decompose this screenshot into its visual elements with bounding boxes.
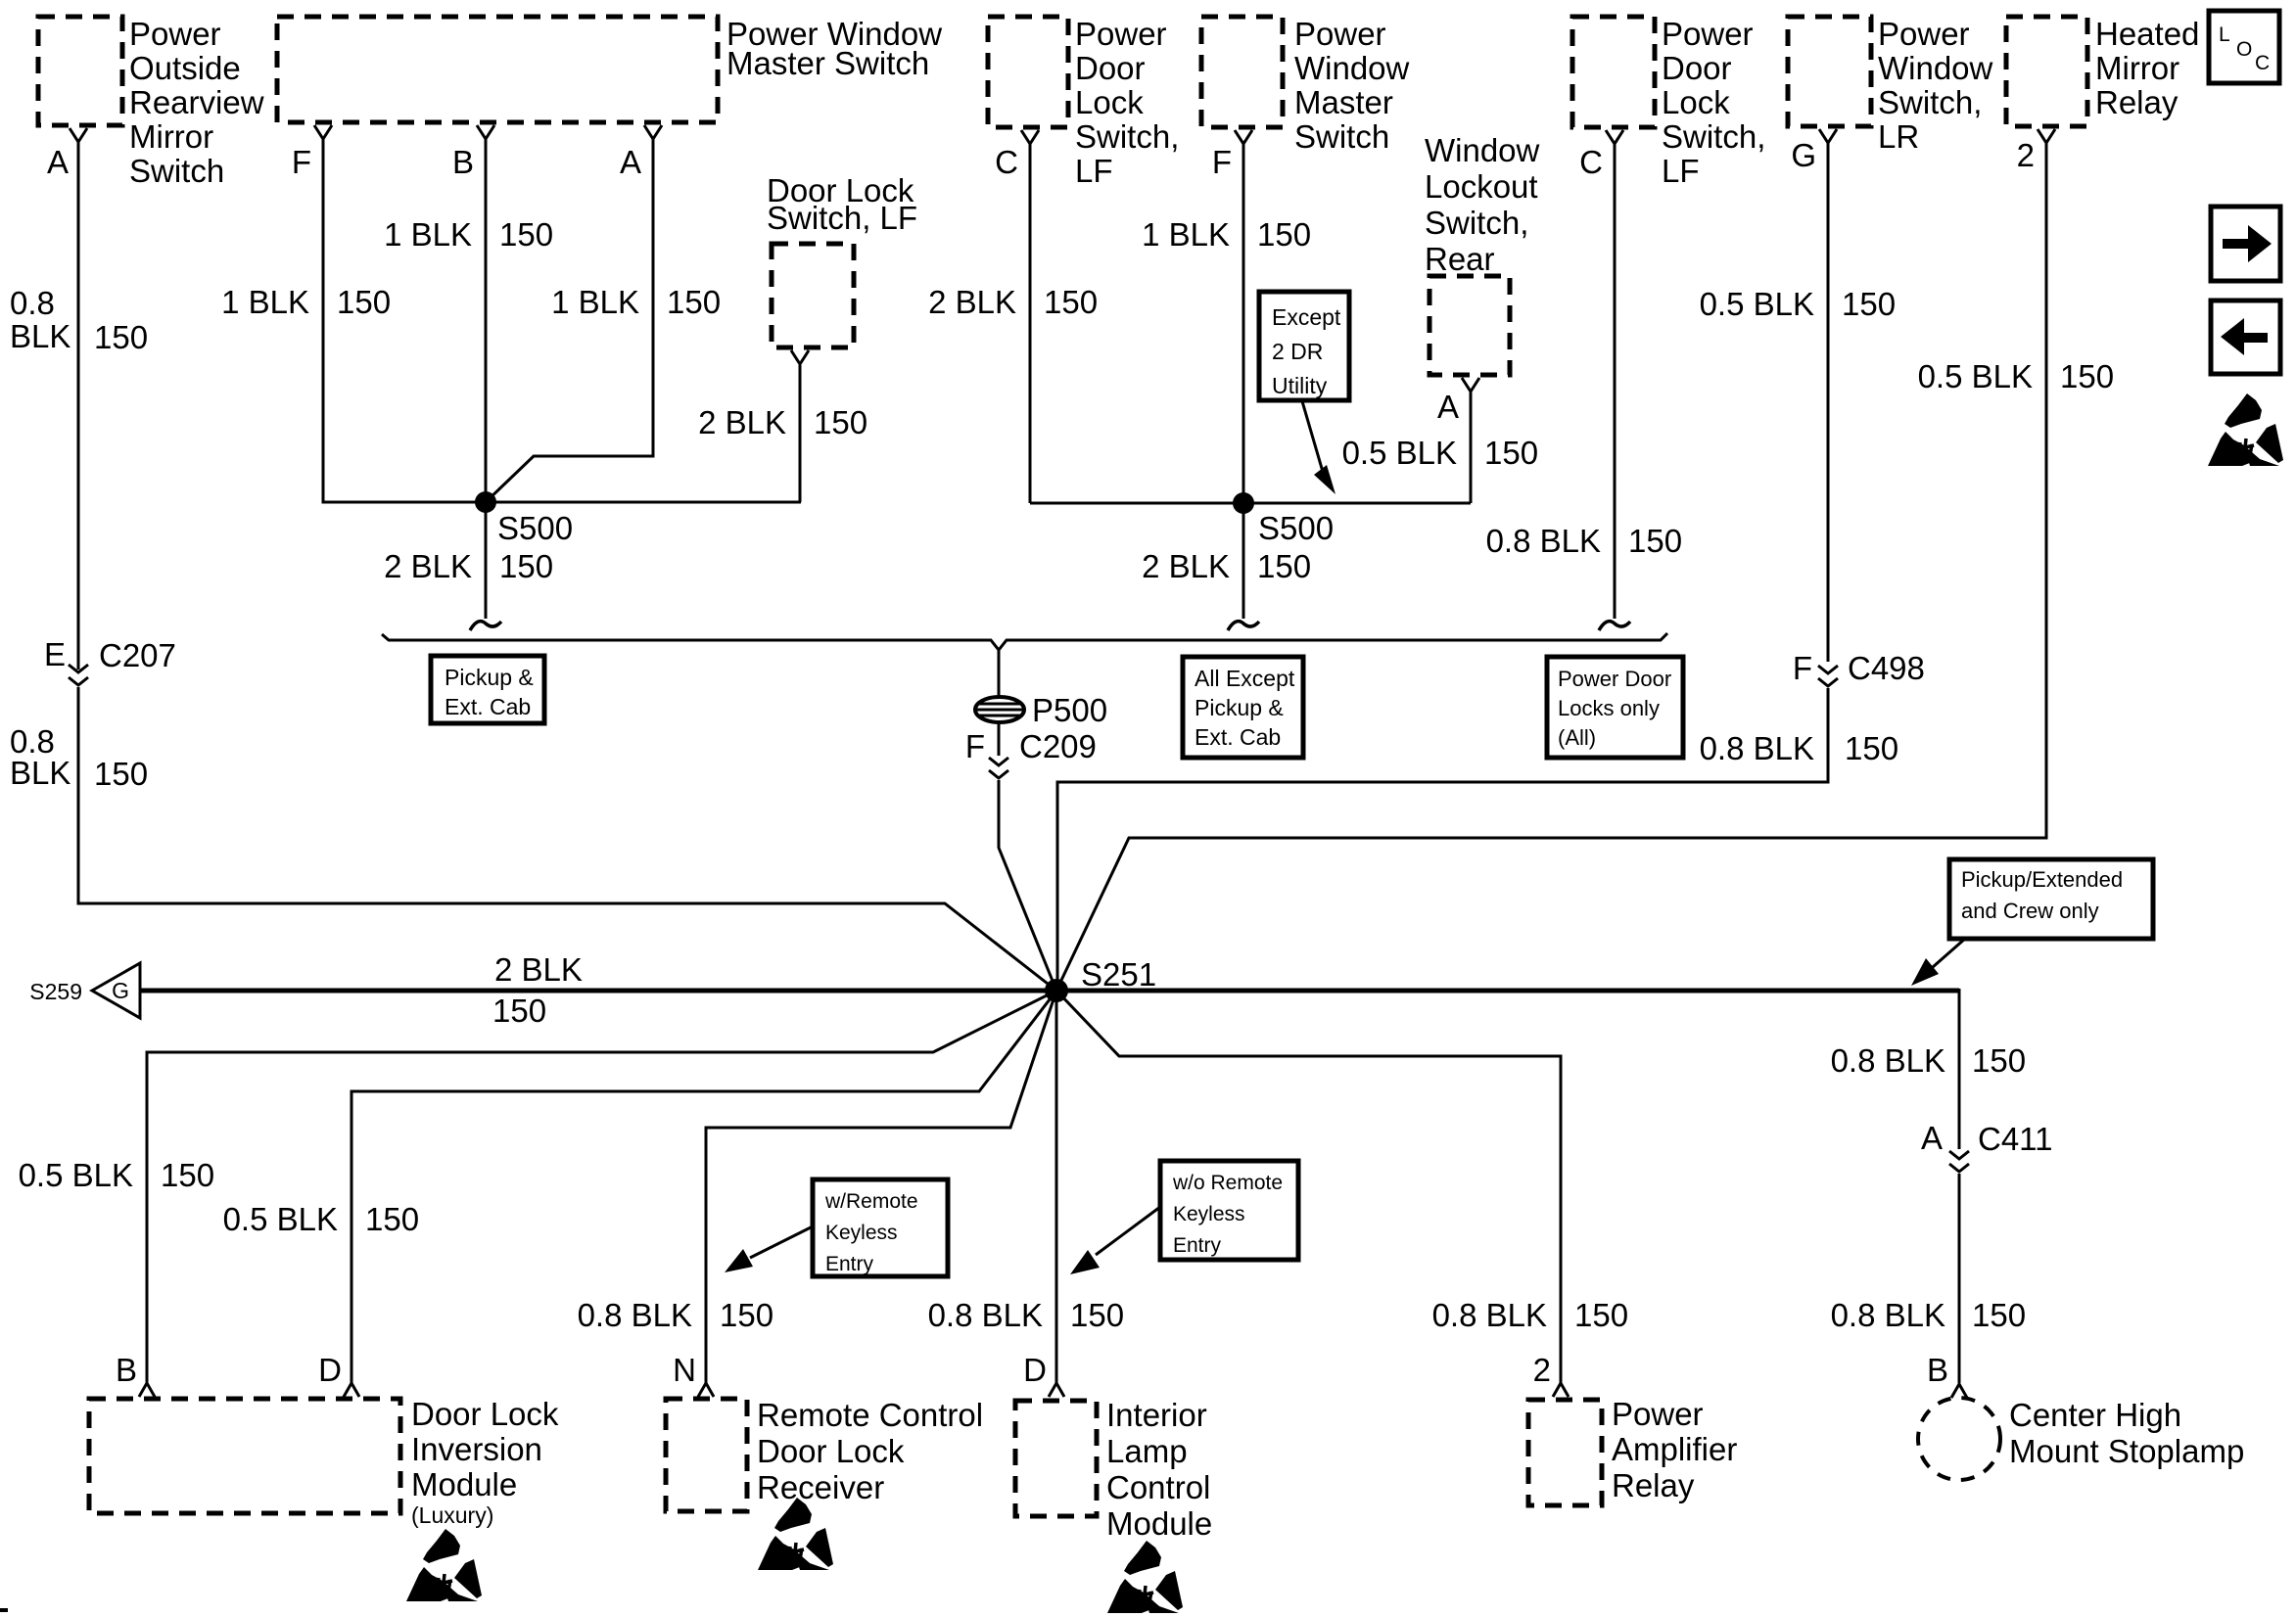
svg-text:150: 150: [1842, 286, 1896, 322]
grounds trunk 2 BLK right: [1056, 989, 1959, 1149]
arrow from Except 2 DR Utility callout: [1302, 401, 1335, 494]
svg-text:Ext. Cab: Ext. Cab: [445, 694, 531, 719]
label 2 BLK 150 below S500 right: [1142, 548, 1311, 584]
svg-text:Master Switch: Master Switch: [726, 45, 929, 81]
wire C209 to S251: [999, 780, 1056, 991]
label 0.8 BLK 150 on wire A lower: [10, 723, 148, 792]
wire C498 to S251 trunk corner: [1057, 688, 1828, 991]
svg-text:LF: LF: [1075, 153, 1113, 189]
svg-text:Switch: Switch: [1294, 118, 1389, 155]
svg-text:Door: Door: [1075, 50, 1146, 86]
svg-text:Receiver: Receiver: [757, 1469, 884, 1505]
svg-text:Door Lock: Door Lock: [757, 1433, 905, 1469]
wire F2 to S500 right: [1242, 143, 1245, 503]
component Power Door Lock Switch LF: [988, 16, 1179, 189]
svg-text:Utility: Utility: [1272, 373, 1328, 398]
svg-text:1 BLK: 1 BLK: [1142, 216, 1230, 253]
wire below S500 left with bus squiggle: [470, 502, 501, 630]
component Power Window Master Switch: [277, 16, 942, 122]
svg-text:Switch,: Switch,: [1425, 205, 1528, 241]
pin C of power door lock switch LF 2: [1579, 130, 1623, 180]
svg-text:150: 150: [2060, 358, 2114, 394]
pin F of power window master switch: [292, 125, 332, 180]
svg-text:F: F: [1212, 144, 1232, 180]
svg-text:Lockout: Lockout: [1425, 168, 1538, 205]
svg-text:150: 150: [1628, 523, 1682, 559]
svg-text:Window: Window: [1294, 50, 1410, 86]
svg-text:L: L: [2219, 23, 2230, 46]
svg-text:O: O: [2236, 38, 2252, 61]
harness bus line: [382, 633, 1667, 650]
label 2 BLK 150 door lock switch wire: [698, 404, 867, 440]
svg-text:1 BLK: 1 BLK: [384, 216, 472, 253]
svg-text:A: A: [1437, 389, 1459, 425]
component Door Lock Switch LF: [767, 172, 917, 347]
pin G of power window switch LR: [1791, 129, 1837, 173]
svg-text:C209: C209: [1019, 728, 1097, 764]
svg-text:150: 150: [94, 756, 148, 792]
component Power Window Switch LR: [1788, 16, 1993, 155]
svg-text:Locks only: Locks only: [1558, 696, 1660, 720]
svg-text:0.8 BLK: 0.8 BLK: [578, 1297, 692, 1333]
component Window Lockout Switch Rear: [1425, 132, 1540, 375]
svg-text:C411: C411: [1978, 1121, 2052, 1157]
svg-text:Switch, LF: Switch, LF: [767, 200, 917, 236]
svg-text:C: C: [995, 144, 1018, 180]
connector C411: [1921, 1120, 2052, 1172]
connector C207: [44, 636, 176, 685]
wire window lockout switch down to bus: [1470, 392, 1473, 503]
svg-text:S251: S251: [1081, 956, 1156, 993]
pin of door lock switch LF: [791, 350, 809, 364]
svg-text:LR: LR: [1878, 118, 1919, 155]
off-page connector S259 G: [29, 963, 140, 1018]
svg-text:0.5 BLK: 0.5 BLK: [1700, 286, 1814, 322]
svg-text:0.5 BLK: 0.5 BLK: [1918, 358, 2033, 394]
svg-text:Heated: Heated: [2095, 16, 2199, 52]
arrow from w o Remote callout to trunk wire: [1070, 1207, 1160, 1274]
component Heated Mirror Relay: [2006, 16, 2199, 126]
svg-text:150: 150: [1845, 730, 1898, 766]
svg-text:Module: Module: [411, 1466, 517, 1502]
svg-text:Power: Power: [1075, 16, 1167, 52]
svg-text:A: A: [1921, 1120, 1943, 1156]
label 1 BLK 150 wire F2: [1142, 216, 1311, 253]
svg-text:Power: Power: [1878, 16, 1970, 52]
svg-text:F: F: [292, 144, 311, 180]
ESD warning symbol interior lamp module: [1107, 1541, 1183, 1613]
svg-text:(Luxury): (Luxury): [411, 1502, 493, 1528]
svg-text:Power: Power: [1612, 1396, 1704, 1432]
svg-text:Window: Window: [1425, 132, 1540, 168]
svg-text:A: A: [47, 144, 69, 180]
svg-text:G: G: [112, 978, 129, 1003]
svg-text:Rearview: Rearview: [129, 84, 264, 120]
wire A2 jog to S500: [486, 139, 653, 502]
fan wire S251 to door lock inversion module pin D: [351, 991, 1056, 1383]
pin C of power door lock switch LF: [995, 130, 1039, 180]
svg-text:Power: Power: [129, 16, 221, 52]
svg-text:Entry: Entry: [1173, 1234, 1222, 1257]
svg-text:N: N: [673, 1352, 696, 1388]
svg-text:Entry: Entry: [825, 1253, 874, 1275]
svg-text:0.8 BLK: 0.8 BLK: [1831, 1042, 1945, 1079]
svg-text:Window: Window: [1878, 50, 1993, 86]
svg-text:2 BLK: 2 BLK: [384, 548, 472, 584]
label 1 BLK 150 wire B: [384, 216, 553, 253]
label 0.8 BLK 150 on C498 wire: [1700, 730, 1898, 766]
svg-text:F: F: [1793, 650, 1812, 686]
fan wire S251 to door lock inversion module pin B: [147, 991, 1056, 1383]
wire from bus to P500: [998, 650, 1001, 697]
svg-text:S500: S500: [1258, 510, 1334, 546]
right S500 bus horizontal: [1030, 502, 1471, 505]
pin A of window lockout switch: [1437, 378, 1479, 425]
svg-text:Master: Master: [1294, 84, 1393, 120]
connector C209: [965, 728, 1097, 778]
component Power Amplifier Relay: [1528, 1396, 1737, 1505]
svg-text:2 BLK: 2 BLK: [494, 951, 583, 988]
right arrow legend box: [2211, 207, 2280, 281]
svg-text:D: D: [1023, 1352, 1047, 1388]
svg-text:Amplifier: Amplifier: [1612, 1431, 1737, 1467]
svg-text:D: D: [318, 1352, 342, 1388]
grounds trunk 2 BLK left to S259: [140, 989, 1056, 993]
svg-text:0.8 BLK: 0.8 BLK: [928, 1297, 1043, 1333]
svg-text:0.5 BLK: 0.5 BLK: [223, 1201, 338, 1237]
label 2 BLK 150 trunk: [492, 951, 583, 1029]
svg-text:Except: Except: [1272, 304, 1341, 330]
svg-text:150: 150: [499, 216, 553, 253]
svg-text:Pickup/Extended: Pickup/Extended: [1961, 867, 2123, 892]
svg-text:C: C: [2255, 52, 2270, 74]
svg-text:Mount Stoplamp: Mount Stoplamp: [2009, 1433, 2244, 1469]
label 0.5 BLK 150 inversion B wire: [19, 1157, 214, 1193]
ESD warning symbol receiver: [758, 1498, 833, 1570]
inline connector P500: [975, 692, 1107, 728]
svg-text:C: C: [1579, 144, 1603, 180]
svg-text:w/Remote: w/Remote: [824, 1190, 918, 1213]
svg-text:Remote Control: Remote Control: [757, 1397, 983, 1433]
svg-text:Door Lock: Door Lock: [411, 1396, 559, 1432]
pin 2 of power amplifier relay: [1533, 1352, 1569, 1397]
svg-text:0.8 BLK: 0.8 BLK: [1700, 730, 1814, 766]
component Power Door Lock Switch LF 2: [1572, 16, 1765, 189]
wire G from power window switch LR to C498: [1827, 143, 1830, 662]
wire door lock switch LF down to bus: [799, 365, 802, 502]
svg-text:0.8 BLK: 0.8 BLK: [1486, 523, 1601, 559]
svg-text:P500: P500: [1032, 692, 1107, 728]
svg-text:150: 150: [1044, 284, 1098, 320]
svg-text:(All): (All): [1558, 725, 1596, 750]
svg-text:S259: S259: [29, 979, 82, 1004]
label 0.5 BLK 150 heated mirror wire: [1918, 358, 2114, 394]
callout Pickup Extended and Crew only: [1949, 859, 2153, 939]
svg-text:w/o Remote: w/o Remote: [1172, 1172, 1283, 1194]
svg-text:LF: LF: [1662, 153, 1700, 189]
svg-text:Power: Power: [1294, 16, 1386, 52]
svg-text:Relay: Relay: [1612, 1467, 1695, 1503]
pin B of door lock inversion module: [116, 1352, 155, 1397]
svg-text:150: 150: [1972, 1042, 2026, 1079]
pin B of power window master switch: [452, 125, 494, 180]
svg-text:150: 150: [1257, 216, 1311, 253]
svg-text:Door: Door: [1662, 50, 1732, 86]
wire C from power door lock switch LF to right bus: [1029, 143, 1032, 503]
svg-text:150: 150: [1574, 1297, 1628, 1333]
pin D of door lock inversion module: [318, 1352, 359, 1397]
label 0.8 BLK 150 wire C2: [1486, 523, 1682, 559]
svg-text:0.8: 0.8: [10, 285, 55, 321]
wire A from mirror switch down to C207: [77, 142, 80, 670]
svg-text:Pickup &: Pickup &: [1195, 695, 1284, 720]
svg-text:Mirror: Mirror: [129, 118, 213, 155]
svg-text:Switch: Switch: [129, 153, 224, 189]
wire A below C207 to corner and right to S251: [78, 687, 1056, 991]
wire 2 from heated mirror relay to S251: [1056, 143, 2046, 991]
label 0.8 BLK 150 amplifier wire: [1432, 1297, 1628, 1333]
svg-text:150: 150: [1484, 435, 1538, 471]
svg-text:Ext. Cab: Ext. Cab: [1195, 724, 1281, 750]
component Center High Mount Stoplamp: [1918, 1397, 2244, 1480]
svg-text:0.8 BLK: 0.8 BLK: [1432, 1297, 1547, 1333]
svg-text:Center High: Center High: [2009, 1397, 2181, 1433]
svg-text:Keyless: Keyless: [825, 1222, 898, 1244]
svg-text:2 DR: 2 DR: [1272, 339, 1323, 364]
callout Power Door Locks only All: [1547, 657, 1683, 758]
splice S500 left: [475, 491, 573, 546]
svg-text:Inversion: Inversion: [411, 1431, 542, 1467]
svg-text:150: 150: [720, 1297, 773, 1333]
wire B to S500: [485, 139, 488, 502]
svg-text:2 BLK: 2 BLK: [1142, 548, 1230, 584]
label 2 BLK 150 below S500 left: [384, 548, 553, 584]
svg-text:0.5 BLK: 0.5 BLK: [1342, 435, 1457, 471]
svg-text:150: 150: [1257, 548, 1311, 584]
label 1 BLK 150 wire A2: [551, 284, 721, 320]
splice S251: [1045, 956, 1156, 1002]
svg-text:F: F: [965, 728, 985, 764]
component Power Outside Rearview Mirror Switch: [38, 16, 264, 189]
svg-text:150: 150: [814, 404, 867, 440]
fan wire S251 to remote receiver pin N: [706, 991, 1056, 1383]
svg-text:Outside: Outside: [129, 50, 241, 86]
page margin tick bottom left: [0, 1608, 8, 1612]
svg-text:1 BLK: 1 BLK: [551, 284, 639, 320]
svg-text:C207: C207: [99, 637, 176, 673]
left arrow legend box: [2211, 300, 2280, 374]
svg-text:A: A: [620, 144, 641, 180]
svg-text:150: 150: [94, 319, 148, 355]
component Door Lock Inversion Module: [89, 1396, 559, 1528]
svg-text:Power: Power: [1662, 16, 1754, 52]
svg-text:B: B: [116, 1352, 137, 1388]
splice S500 right: [1233, 492, 1334, 546]
connector C498: [1793, 650, 1925, 686]
svg-text:Module: Module: [1106, 1505, 1212, 1542]
svg-text:150: 150: [337, 284, 391, 320]
wire below S500 right with bus squiggle: [1228, 503, 1259, 630]
wire C411 to stoplamp: [1958, 1174, 1961, 1383]
svg-text:0.5 BLK: 0.5 BLK: [19, 1157, 133, 1193]
svg-text:C498: C498: [1848, 650, 1925, 686]
svg-text:Rear: Rear: [1425, 241, 1495, 277]
pin F of power window master switch 2: [1212, 130, 1252, 180]
svg-text:Switch,: Switch,: [1878, 84, 1982, 120]
svg-text:and Crew only: and Crew only: [1961, 899, 2099, 923]
svg-text:150: 150: [1070, 1297, 1124, 1333]
wire F to S500 bus: [323, 139, 801, 502]
label 1 BLK 150 wire F: [221, 284, 391, 320]
arrow from Pickup Extended callout: [1911, 939, 1965, 986]
callout w slash o Remote Keyless Entry: [1160, 1161, 1298, 1260]
label 0.8 BLK 150 on wire A upper: [10, 285, 148, 355]
component Remote Control Door Lock Receiver: [666, 1397, 983, 1511]
label 0.8 BLK 150 receiver wire: [578, 1297, 773, 1333]
svg-text:2 BLK: 2 BLK: [698, 404, 786, 440]
callout Except 2 DR Utility: [1259, 292, 1349, 400]
svg-text:150: 150: [365, 1201, 419, 1237]
svg-text:Pickup &: Pickup &: [445, 665, 534, 690]
svg-text:150: 150: [667, 284, 721, 320]
svg-text:S500: S500: [497, 510, 573, 546]
svg-text:Control: Control: [1106, 1469, 1210, 1505]
svg-text:Relay: Relay: [2095, 84, 2179, 120]
label 0.5 BLK 150 wire G: [1700, 286, 1896, 322]
pin N of remote control door lock receiver: [673, 1352, 714, 1397]
arrow from w Remote callout to N wire: [725, 1226, 813, 1272]
svg-text:2: 2: [1533, 1352, 1551, 1388]
ESD warning symbol inversion module: [406, 1529, 482, 1601]
LOC legend box: [2209, 11, 2279, 83]
svg-text:Lock: Lock: [1662, 84, 1730, 120]
svg-text:Keyless: Keyless: [1173, 1203, 1245, 1225]
pin A of mirror switch: [47, 128, 87, 180]
fan wire S251 to power amplifier relay pin 2: [1056, 991, 1561, 1383]
svg-text:Power Door: Power Door: [1558, 667, 1671, 691]
label 0.5 BLK 150 lockout wire: [1342, 435, 1538, 471]
svg-text:Lamp: Lamp: [1106, 1433, 1188, 1469]
component Interior Lamp Control Module: [1015, 1397, 1212, 1542]
pin 2 of heated mirror relay: [2017, 129, 2055, 173]
pin B of center high mount stoplamp: [1927, 1352, 1967, 1398]
label 0.8 BLK 150 stoplamp wire: [1831, 1297, 2026, 1333]
svg-text:150: 150: [161, 1157, 214, 1193]
svg-text:Switch,: Switch,: [1075, 118, 1179, 155]
callout Pickup and Ext Cab: [431, 656, 544, 723]
callout All Except Pickup and Ext Cab: [1183, 657, 1303, 758]
svg-text:0.8 BLK: 0.8 BLK: [1831, 1297, 1945, 1333]
svg-text:BLK: BLK: [10, 755, 70, 791]
svg-text:B: B: [452, 144, 474, 180]
pin D of interior lamp control module: [1023, 1352, 1064, 1397]
callout w slash Remote Keyless Entry: [813, 1179, 948, 1276]
svg-text:1 BLK: 1 BLK: [221, 284, 309, 320]
svg-text:150: 150: [499, 548, 553, 584]
pin A of power window master switch: [620, 125, 662, 180]
svg-text:Lock: Lock: [1075, 84, 1144, 120]
label 0.5 BLK 150 inversion D wire: [223, 1201, 419, 1237]
component Power Window Master Switch 2: [1201, 16, 1410, 155]
fan wire S251 down to interior lamp module pin D: [1055, 991, 1058, 1383]
svg-text:2 BLK: 2 BLK: [928, 284, 1016, 320]
svg-text:BLK: BLK: [10, 318, 70, 354]
wire C2 from power door lock switch LF 2 down to bus squiggle: [1599, 143, 1630, 630]
svg-text:Mirror: Mirror: [2095, 50, 2179, 86]
svg-text:Switch,: Switch,: [1662, 118, 1765, 155]
label 2 BLK 150 wire C: [928, 284, 1098, 320]
svg-text:G: G: [1791, 137, 1816, 173]
svg-text:150: 150: [492, 993, 546, 1029]
svg-text:Interior: Interior: [1106, 1397, 1207, 1433]
wire P500 to C209: [998, 722, 1001, 756]
label 0.8 BLK 150 interior lamp wire: [928, 1297, 1124, 1333]
svg-text:All Except: All Except: [1195, 666, 1295, 691]
label 0.8 BLK 150 right trunk drop: [1831, 1042, 2026, 1079]
ESD warning symbol top right: [2208, 393, 2283, 466]
svg-text:2: 2: [2017, 137, 2035, 173]
svg-text:150: 150: [1972, 1297, 2026, 1333]
svg-text:E: E: [44, 636, 66, 672]
svg-text:B: B: [1927, 1352, 1948, 1388]
